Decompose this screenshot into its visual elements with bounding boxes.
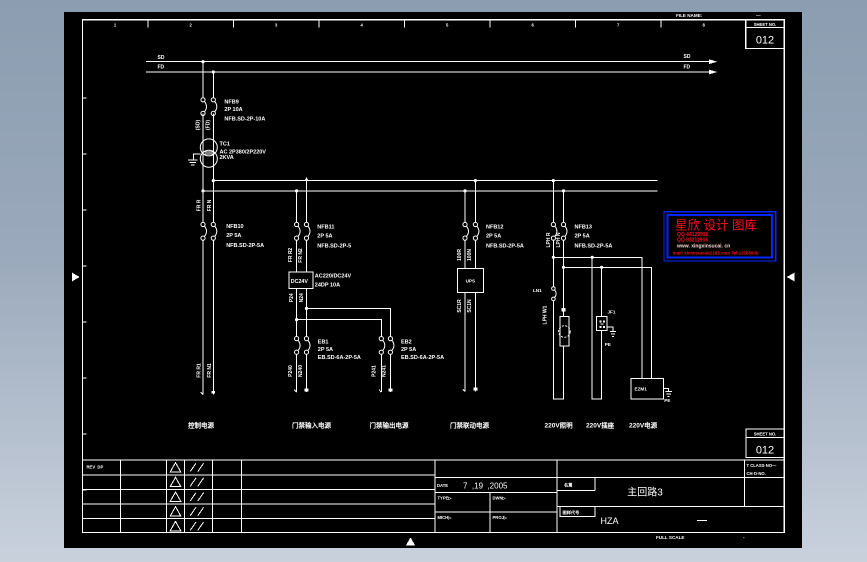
- wire P24 down: [296, 288, 298, 336]
- svg-text:NFB.SD-2P-5A: NFB.SD-2P-5A: [226, 243, 264, 249]
- wire end marker left: [201, 392, 203, 395]
- svg-text:DWN▷: DWN▷: [493, 496, 507, 501]
- signature labels: [438, 496, 508, 521]
- svg-text:EB2: EB2: [401, 339, 412, 345]
- svg-text:2P 10A: 2P 10A: [224, 107, 242, 113]
- svg-text:(FD): (FD): [206, 120, 212, 130]
- bus FR phase: [213, 180, 657, 182]
- svg-text:门禁输出电源: 门禁输出电源: [370, 421, 410, 430]
- lamp fixture: [559, 317, 571, 346]
- wire end marker right: [305, 388, 309, 391]
- wire feed to B2 right: [307, 308, 391, 336]
- svg-text:SC1N: SC1N: [467, 299, 473, 313]
- node line1 start: [552, 256, 555, 259]
- ground socket ground: [610, 332, 616, 337]
- svg-text:N240: N240: [298, 365, 304, 377]
- revision marks: [170, 463, 203, 531]
- access control unit EZM1: [631, 378, 663, 399]
- wire branch2 R mid: [306, 240, 308, 272]
- wire P240 down: [296, 354, 298, 392]
- wire branch1 L upper: [202, 191, 204, 222]
- svg-text:名罵: 名罵: [564, 482, 572, 489]
- wire branch2 L upper: [296, 191, 298, 222]
- svg-text:DC24V: DC24V: [291, 279, 309, 285]
- bus SD: [146, 54, 717, 64]
- breaker NFB10: [201, 222, 217, 240]
- svg-text:PE: PE: [605, 342, 611, 347]
- top border zone ticks: [148, 20, 661, 27]
- value label NFB10: [226, 224, 264, 249]
- node SD tap: [201, 60, 204, 63]
- wire branch1 R upper: [212, 181, 214, 223]
- svg-text:CH·D·NO.: CH·D·NO.: [747, 471, 766, 476]
- svg-text:PE: PE: [664, 398, 670, 403]
- svg-text:2P 5A: 2P 5A: [486, 234, 501, 240]
- centering mark left: [72, 273, 80, 282]
- svg-text:MICH▷: MICH▷: [438, 515, 453, 520]
- svg-text:2P 5A: 2P 5A: [226, 233, 241, 239]
- circuit name labels: [188, 421, 658, 430]
- wire SC1R down: [464, 293, 466, 392]
- node branch2 L tap: [295, 189, 298, 192]
- title block date/signature section: [435, 460, 784, 533]
- svg-text:NFB.SD-2P-5A: NFB.SD-2P-5A: [486, 243, 524, 249]
- wire branch3 L upper: [464, 191, 466, 222]
- socket outlet: [597, 317, 607, 331]
- svg-text:NFB.SD-2P-10A: NFB.SD-2P-10A: [224, 117, 265, 123]
- svg-text:7 ,19 ,2005: 7 ,19 ,2005: [463, 482, 508, 491]
- svg-text:(SD): (SD): [195, 120, 201, 131]
- node branch4 R tap: [562, 189, 565, 192]
- wire FD drop upper: [212, 72, 214, 98]
- wire EZM1 ground lead: [663, 389, 668, 392]
- svg-text:FILE NAME:: FILE NAME:: [676, 13, 703, 18]
- value label DC24V: [315, 274, 352, 289]
- svg-text:星欣 设计 图库: 星欣 设计 图库: [675, 218, 757, 233]
- value label TC1: [220, 142, 267, 162]
- wire end marker left: [294, 390, 296, 393]
- wire branch2 R upper: [306, 181, 308, 223]
- svg-text:EB.SD-6A-2P-5A: EB.SD-6A-2P-5A: [318, 355, 361, 361]
- svg-text:220V插座: 220V插座: [586, 421, 615, 430]
- svg-text:FD: FD: [158, 65, 165, 71]
- wire drop B to socket: [601, 267, 603, 316]
- svg-text:LPH N: LPH N: [556, 232, 562, 247]
- ground TC1 ground: [188, 160, 198, 165]
- centering mark bottom: [406, 537, 415, 545]
- svg-text:DATE: DATE: [437, 483, 448, 488]
- breaker NFB9: [201, 98, 217, 116]
- bus FD: [146, 64, 717, 74]
- node P24 junction: [295, 318, 298, 321]
- svg-text:SHEET NO.: SHEET NO.: [754, 432, 777, 437]
- wire SC1N down: [474, 293, 476, 392]
- svg-text:LN1: LN1: [533, 288, 542, 293]
- svg-text:EB.SD-6A-2P-5A: EB.SD-6A-2P-5A: [401, 355, 444, 361]
- value label NFB12: [486, 224, 524, 249]
- svg-text:www. xingxinsucai. cn: www. xingxinsucai. cn: [676, 244, 730, 250]
- svg-text:FR N1: FR N1: [207, 363, 213, 378]
- watermark box: [664, 212, 776, 261]
- svg-text:REV DP: REV DP: [87, 464, 104, 469]
- svg-text:NFB13: NFB13: [575, 224, 592, 230]
- svg-text:UPS: UPS: [466, 279, 475, 284]
- svg-text:N241: N241: [382, 365, 388, 377]
- breaker NFB11: [295, 222, 311, 240]
- wire branch3 R mid: [474, 240, 476, 268]
- value label NFB11: [317, 224, 351, 249]
- breaker NFB12: [463, 222, 479, 240]
- wire end marker left: [463, 389, 465, 392]
- wire into TC1 left: [202, 114, 204, 191]
- svg-text:FULL SCALE: FULL SCALE: [656, 535, 685, 540]
- svg-text:P240: P240: [288, 365, 294, 377]
- dash mark: [697, 520, 707, 522]
- breaker NFB13: [551, 222, 567, 240]
- wire branch4 R down to lamp: [563, 240, 565, 316]
- title area: [557, 460, 784, 517]
- svg-text:控制电源: 控制电源: [188, 421, 215, 430]
- wire branch1 L lower: [202, 240, 204, 394]
- wire feed to B2 left: [297, 320, 382, 337]
- node branch2 R tap arrow: [305, 177, 309, 181]
- svg-text:012: 012: [756, 445, 774, 457]
- svg-text:PROJ▷: PROJ▷: [493, 515, 508, 520]
- svg-text:SHEET NO.: SHEET NO.: [754, 22, 777, 27]
- wire branch4 L lower U-connect: [553, 301, 563, 400]
- svg-text:2P 5A: 2P 5A: [575, 234, 590, 240]
- svg-text:门禁输入电源: 门禁输入电源: [292, 421, 332, 430]
- drawing frame border: [83, 20, 785, 533]
- svg-text:P24: P24: [289, 293, 295, 302]
- value label EB1: [318, 339, 361, 361]
- node TC1 to bus1: [212, 179, 215, 182]
- svg-text:图样代号: 图样代号: [563, 509, 580, 516]
- wire into TC1 right: [212, 114, 214, 181]
- node line2 start: [562, 266, 565, 269]
- svg-text:NFB9: NFB9: [224, 100, 238, 106]
- svg-text:TYPE▷: TYPE▷: [438, 496, 453, 501]
- wire SD drop upper: [202, 62, 204, 98]
- wire end marker left: [379, 390, 381, 393]
- svg-text:NFB10: NFB10: [226, 224, 243, 230]
- wire N24 down: [306, 288, 308, 336]
- wire N241 down: [389, 354, 391, 392]
- wire N240 down: [306, 354, 308, 392]
- wire branch4 L upper: [552, 181, 554, 223]
- svg-text:NFB11: NFB11: [317, 224, 334, 230]
- svg-text:2P 5A: 2P 5A: [318, 347, 333, 353]
- wire end marker right: [211, 391, 215, 394]
- svg-text:100R: 100R: [457, 249, 463, 261]
- node N24 junction: [305, 307, 308, 310]
- node branch4 L tap: [552, 179, 555, 182]
- svg-text:2P 5A: 2P 5A: [317, 234, 332, 240]
- svg-text:100N: 100N: [467, 249, 473, 261]
- svg-text:012: 012: [756, 35, 774, 47]
- svg-text:FR N2: FR N2: [298, 248, 304, 263]
- wire TC1 ground lead: [194, 154, 201, 160]
- svg-text:NFB.SD-2P-5: NFB.SD-2P-5: [317, 243, 351, 249]
- node FD tap: [212, 70, 215, 73]
- breaker LPH W1 (1P): [552, 287, 557, 301]
- svg-text:SD: SD: [158, 55, 165, 61]
- svg-text:FR R2: FR R2: [288, 248, 294, 263]
- svg-text:NFB.SD-2P-5A: NFB.SD-2P-5A: [575, 243, 613, 249]
- wire branch1 R lower: [212, 240, 214, 394]
- svg-text:220V电源: 220V电源: [629, 421, 658, 430]
- wire end marker right: [389, 388, 393, 391]
- svg-text:220V照明: 220V照明: [545, 421, 574, 430]
- svg-text:2KVA: 2KVA: [220, 155, 234, 161]
- wire end marker right: [474, 388, 478, 391]
- svg-text:NFB12: NFB12: [486, 224, 503, 230]
- svg-text:24DP 10A: 24DP 10A: [315, 283, 340, 289]
- sheet number box bottom: [746, 429, 785, 458]
- svg-text:HZA: HZA: [601, 516, 619, 526]
- svg-text:N24: N24: [299, 293, 305, 302]
- node branch3 R tap: [474, 179, 477, 182]
- class number cell: [747, 463, 778, 476]
- top border zone numbers: [114, 23, 706, 28]
- wire line2 neutral distribution: [564, 267, 652, 378]
- node drop A tap: [591, 256, 594, 259]
- value label NFB13: [575, 224, 613, 249]
- svg-text:SD: SD: [684, 54, 691, 60]
- centering mark right: [787, 273, 795, 282]
- wire line1 phase distribution: [553, 257, 642, 378]
- svg-text:mail: xinxinsucai@163.com Tel: mail: xinxinsucai@163.com Tel:13185930: [673, 251, 759, 256]
- svg-text:AC220/DC24V: AC220/DC24V: [315, 274, 352, 280]
- svg-text:SC1R: SC1R: [457, 299, 463, 313]
- svg-text:FD: FD: [684, 64, 691, 70]
- svg-text:FR R: FR R: [197, 199, 203, 211]
- wire socket ground lead: [607, 327, 613, 332]
- sheet number box top: [746, 20, 785, 49]
- wire branch3 R upper: [474, 181, 476, 223]
- node drop B tap: [600, 266, 603, 269]
- wire branch4 R upper: [563, 191, 565, 222]
- svg-text:LPH R: LPH R: [546, 232, 552, 247]
- left border zone ticks: [83, 98, 87, 490]
- wire P241 down: [380, 354, 382, 392]
- svg-text:P241: P241: [371, 365, 377, 377]
- svg-text:JF1: JF1: [608, 310, 616, 315]
- svg-text:FR N: FR N: [207, 199, 213, 211]
- svg-text:门禁联动电源: 门禁联动电源: [450, 421, 490, 430]
- breaker EB1: [295, 337, 311, 355]
- transformer TC1: [200, 139, 217, 167]
- svg-text:—: —: [756, 13, 761, 18]
- wire drop A U-connect: [592, 257, 601, 399]
- node branch3 L tap: [463, 189, 466, 192]
- junction marker lamp feed: [562, 308, 566, 312]
- wire branch4 L mid: [552, 240, 554, 286]
- svg-text:FR R1: FR R1: [197, 363, 203, 378]
- UPS unit: [457, 268, 483, 292]
- svg-text:TC1: TC1: [220, 142, 230, 148]
- value label NFB9: [224, 100, 265, 123]
- svg-text:2P 5A: 2P 5A: [401, 347, 416, 353]
- wire branch2 L mid: [296, 240, 298, 272]
- svg-text:QQ 93211916: QQ 93211916: [677, 237, 708, 243]
- value label EB2: [401, 339, 444, 361]
- svg-text:T CLASS·NO—: T CLASS·NO—: [747, 463, 778, 468]
- bus FR neutral: [203, 190, 658, 192]
- svg-text:主回路3: 主回路3: [627, 486, 663, 499]
- ground EZM1 ground: [665, 392, 672, 397]
- breaker EB2: [379, 337, 394, 355]
- svg-text:EB1: EB1: [318, 339, 329, 345]
- power supply DC24V: [289, 272, 313, 288]
- title block revision table: [83, 460, 436, 533]
- svg-text:EZM1: EZM1: [635, 387, 648, 392]
- node TC1 to bus2: [201, 189, 204, 192]
- wire branch3 L mid: [464, 240, 466, 268]
- svg-text:LPH W1: LPH W1: [542, 305, 548, 324]
